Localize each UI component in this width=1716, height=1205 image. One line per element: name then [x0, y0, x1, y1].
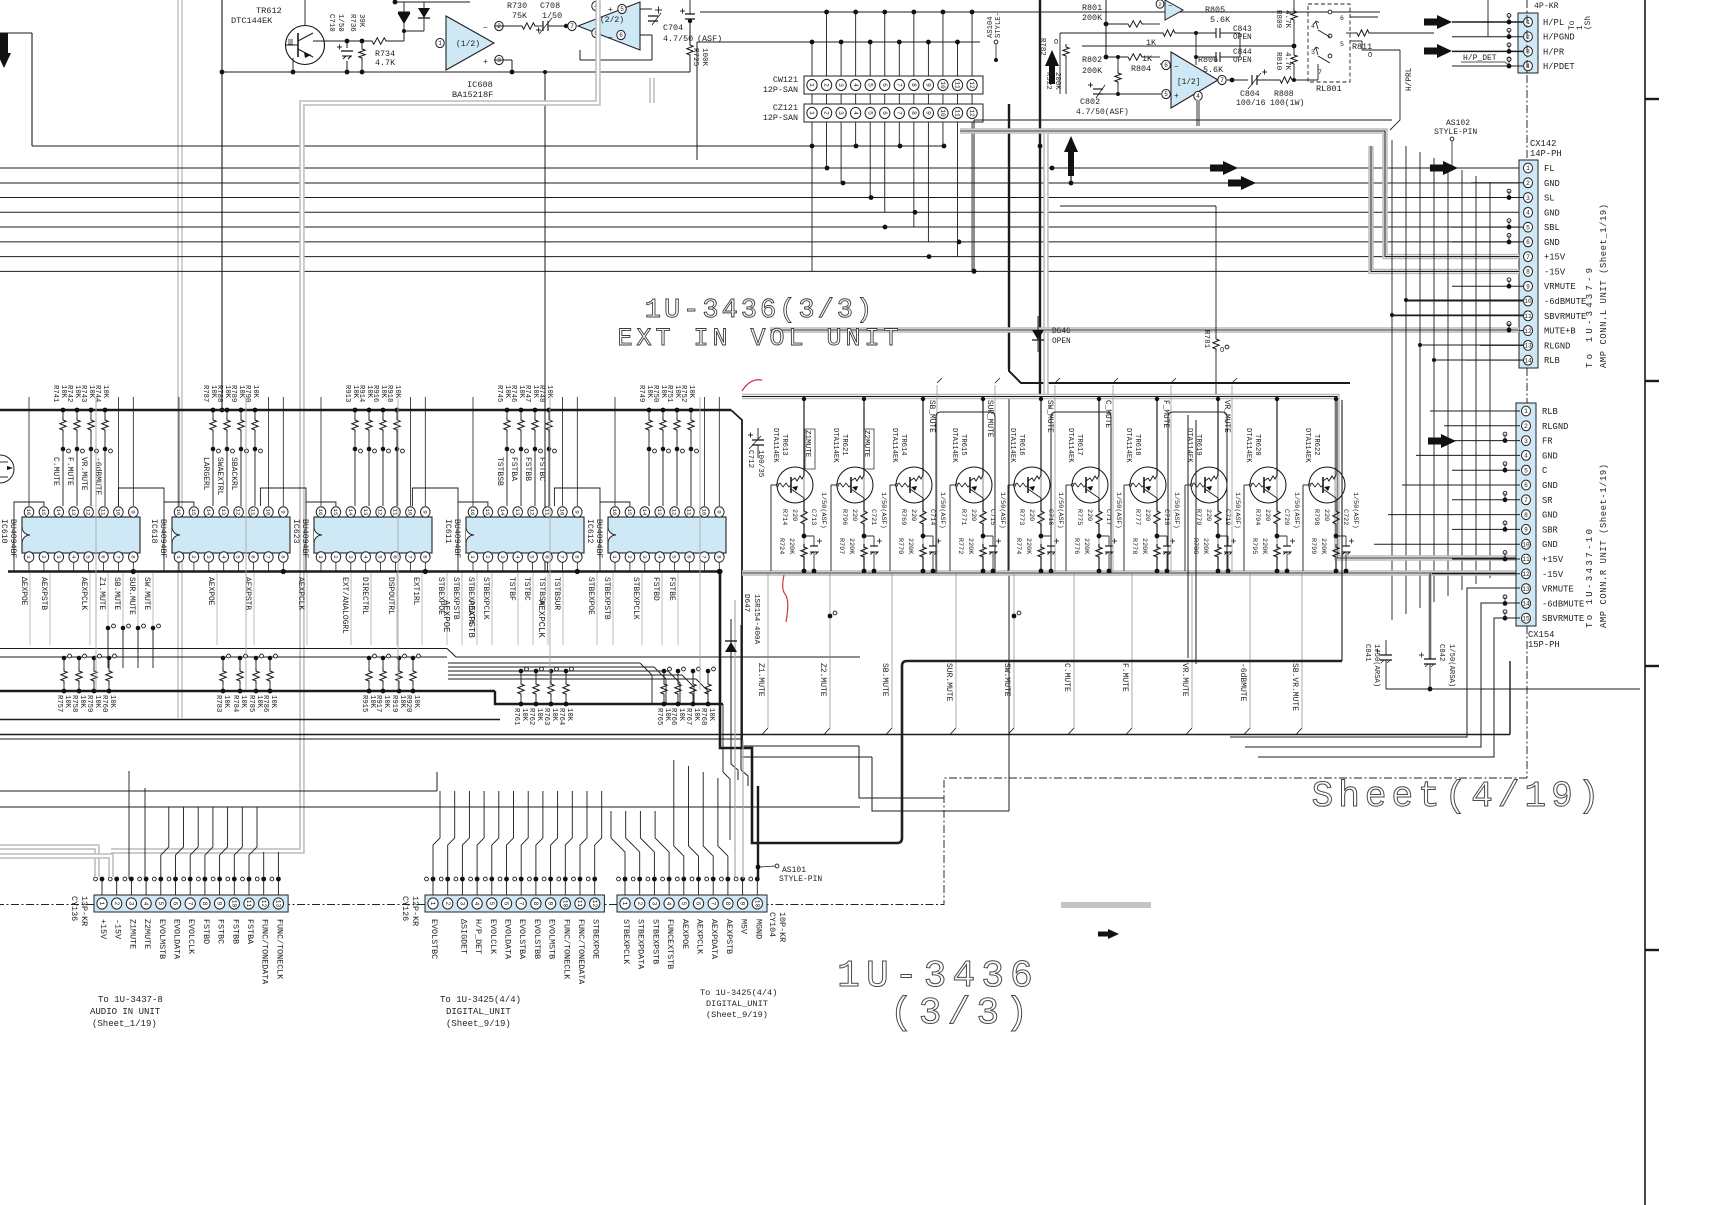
svg-text:R752: R752	[679, 385, 687, 402]
svg-text:F.MUTE: F.MUTE	[65, 457, 74, 486]
label R776 220K	[1072, 538, 1090, 555]
pin 5 CW121	[865, 79, 875, 90]
pin 11 CW121	[952, 79, 962, 90]
svg-text:R779: R779	[1194, 509, 1202, 525]
svg-text:4: 4	[656, 555, 663, 559]
pin 2 CY104	[635, 898, 645, 909]
pin 1 CY104	[620, 898, 630, 909]
svg-text:220K: 220K	[966, 538, 974, 555]
node FUNC/TONECLK	[561, 919, 571, 980]
svg-text:-15V: -15V	[1544, 267, 1566, 277]
svg-text:SBL: SBL	[1544, 223, 1560, 233]
node AEXPSTB	[243, 573, 254, 645]
node SW_MUTE	[1045, 378, 1060, 573]
svg-text:5: 5	[620, 6, 624, 13]
wire corridor	[1509, 661, 1511, 735]
svg-text:1/50(ASF): 1/50(ASF)	[819, 492, 827, 529]
op-amp IC608 (2/2)	[568, 1, 640, 50]
resistor R744	[102, 408, 113, 506]
node AEXPCLK	[79, 573, 90, 645]
svg-text:SR: SR	[1542, 496, 1553, 506]
wire	[345, 39, 350, 75]
svg-text:(2/2): (2/2)	[600, 16, 624, 25]
label R787 10K	[201, 385, 217, 402]
svg-text:14: 14	[1524, 357, 1532, 364]
node DIRECTRL	[360, 573, 371, 645]
svg-text:2: 2	[497, 23, 501, 30]
label C712 100/35	[746, 450, 764, 478]
svg-text:11: 11	[1522, 556, 1530, 563]
wire	[1155, 397, 1159, 508]
resistor R747	[532, 408, 543, 506]
svg-text:EVOLSTBB: EVOLSTBB	[532, 919, 542, 959]
label R798 220	[1312, 509, 1330, 525]
svg-text:5.6K: 5.6K	[1210, 15, 1231, 25]
node -6dBMUTE	[1238, 573, 1250, 735]
svg-text:R750: R750	[651, 385, 659, 402]
svg-text:5: 5	[529, 555, 536, 559]
svg-text:R798: R798	[1312, 509, 1320, 525]
node ΔSIGDET	[458, 919, 468, 954]
svg-text:R799: R799	[1309, 538, 1317, 554]
svg-text:6: 6	[695, 902, 702, 906]
wire pin15 loop	[600, 502, 630, 572]
svg-text:GND: GND	[1542, 481, 1558, 491]
node TSTBC	[522, 573, 533, 645]
svg-text:16: 16	[611, 509, 618, 516]
wire	[0, 734, 1510, 736]
pin 12 CX142 MUTE+B	[1523, 326, 1575, 337]
svg-text:RL801: RL801	[1316, 84, 1342, 94]
wire	[1216, 397, 1220, 508]
label R750 10K	[651, 385, 667, 402]
svg-text:9: 9	[573, 510, 580, 514]
label R801 200K	[1082, 3, 1103, 23]
svg-text:D646: D646	[1052, 328, 1071, 336]
label R730 75K	[507, 1, 528, 21]
svg-text:-6dBMUTE: -6dBMUTE	[93, 457, 102, 496]
resistor R922	[1044, 44, 1069, 94]
wire	[220, 0, 225, 412]
svg-text:8: 8	[532, 902, 539, 906]
svg-text:DIRECTRL: DIRECTRL	[360, 577, 369, 615]
svg-text:2: 2	[444, 902, 451, 906]
capacitor C802	[1088, 83, 1161, 99]
svg-text:R778: R778	[1130, 538, 1138, 554]
wire pin15 loop	[458, 502, 488, 572]
connector CY104	[617, 895, 767, 912]
svg-text:2: 2	[332, 555, 339, 559]
svg-text:C716: C716	[1046, 509, 1054, 525]
svg-text:DTC144EK: DTC144EK	[231, 16, 273, 26]
svg-text:H/PDET: H/PDET	[1543, 62, 1575, 72]
svg-text:10K: 10K	[412, 695, 420, 709]
svg-text:10: 10	[115, 509, 122, 516]
svg-text:STBEXPOE: STBEXPOE	[586, 577, 595, 615]
wire	[862, 397, 866, 508]
pin 7 CY136	[185, 898, 195, 909]
svg-text:R784: R784	[231, 695, 239, 712]
pin 10 CZ121	[938, 107, 948, 118]
pin 3 CX154 FR	[1521, 436, 1553, 447]
label C715	[988, 509, 996, 525]
label CX154 15P-PH	[1528, 630, 1560, 650]
label R757 10K	[55, 695, 71, 712]
svg-text:4: 4	[1526, 210, 1530, 217]
pin 13 CX154 VRMUTE	[1521, 584, 1573, 595]
node EVOLMSTB	[157, 919, 167, 959]
resistor R916	[380, 408, 391, 506]
svg-text:9: 9	[739, 902, 746, 906]
svg-text:6: 6	[503, 902, 510, 906]
svg-text:9: 9	[925, 83, 932, 87]
svg-text:R767: R767	[684, 708, 692, 725]
pin 4 CW121	[850, 79, 860, 90]
wire stubs	[94, 877, 760, 895]
svg-text:6: 6	[619, 32, 623, 39]
node Z2MUTE	[142, 919, 152, 949]
label IC623	[291, 519, 309, 558]
resistor R914	[366, 408, 377, 506]
svg-text:R770: R770	[896, 538, 904, 554]
svg-text:R796: R796	[840, 509, 848, 525]
svg-text:DTA114EK: DTA114EK	[771, 428, 779, 463]
svg-text:8: 8	[201, 902, 208, 906]
capacitor C717	[1099, 536, 1117, 573]
svg-text:1/50(ASF): 1/50(ASF)	[1292, 492, 1300, 529]
svg-text:TR618: TR618	[1133, 434, 1141, 456]
svg-text:OPEN: OPEN	[1233, 34, 1252, 42]
label R741 10K	[51, 385, 67, 402]
wire gray cell	[922, 399, 924, 571]
label R790 10K	[243, 385, 259, 402]
svg-text:+: +	[1174, 92, 1179, 101]
wire	[802, 397, 806, 508]
IC IC618 BU4094BF body	[172, 517, 290, 553]
bus gray transistor top	[742, 397, 1519, 559]
svg-text:5: 5	[377, 555, 384, 559]
label DTA114EK TR615	[950, 428, 967, 463]
svg-text:R736: R736	[348, 14, 356, 32]
wire base	[1243, 485, 1245, 571]
node +15V	[98, 919, 108, 939]
svg-text:16: 16	[317, 509, 324, 516]
svg-text:R761: R761	[512, 708, 520, 725]
svg-text:CX142: CX142	[1530, 139, 1556, 149]
pin 12 CW121	[967, 79, 977, 90]
svg-text:3: 3	[1311, 49, 1315, 56]
wire base	[830, 485, 832, 571]
wire heavy MGND	[756, 786, 761, 879]
svg-text:8: 8	[1524, 512, 1528, 519]
svg-text:4: 4	[1524, 453, 1528, 460]
wire pin15 loop	[164, 502, 194, 572]
label R777 220	[1133, 509, 1151, 525]
pins bottom IC612	[610, 552, 724, 562]
pin 9 CX154 SBR	[1521, 525, 1558, 536]
wire	[32, 144, 946, 149]
svg-text:STBEXPSTB: STBEXPSTB	[602, 577, 611, 620]
node FSTBB	[230, 919, 240, 944]
wire	[1038, 0, 1043, 396]
svg-text:+15V: +15V	[98, 919, 108, 939]
svg-text:8: 8	[279, 555, 286, 559]
label IC611	[443, 519, 461, 558]
dash-dot vertical	[1526, 0, 1528, 778]
svg-text:4: 4	[70, 555, 77, 559]
label DTA114EK TR616	[1008, 428, 1025, 463]
label R810 4.7K	[1274, 52, 1291, 71]
label R746 10K	[509, 385, 525, 402]
pin 3 4P-KR H/PR	[1524, 47, 1565, 58]
wire	[1374, 411, 1520, 574]
svg-text:1/50(ASF): 1/50(ASF)	[1172, 492, 1180, 529]
label R763 10K	[542, 708, 558, 725]
wire base	[1065, 485, 1067, 571]
svg-text:1K: 1K	[1142, 54, 1153, 64]
label C704 4.7/50(ASF)	[663, 23, 722, 44]
svg-text:VR_MUTE: VR_MUTE	[1222, 400, 1230, 433]
node SB.VR.MUTE	[1290, 573, 1302, 735]
label Sheet(4/19)	[1312, 776, 1605, 817]
svg-text:6: 6	[100, 555, 107, 559]
svg-text:10K: 10K	[707, 708, 715, 722]
svg-text:R764: R764	[557, 708, 565, 725]
svg-text:10K: 10K	[269, 695, 277, 709]
svg-text:16: 16	[25, 509, 32, 516]
resistor R788	[224, 408, 235, 506]
resistor R757	[61, 654, 72, 693]
svg-text:1/50(ASF): 1/50(ASF)	[1351, 492, 1359, 529]
label R747 10K	[523, 385, 539, 402]
svg-text:5: 5	[680, 902, 687, 906]
pins top IC611	[468, 507, 582, 517]
capacitor C719	[1218, 536, 1236, 573]
svg-text:SB_MUTE: SB_MUTE	[927, 400, 935, 433]
svg-text:220: 220	[850, 509, 858, 521]
svg-text:To 1U-3437-10: To 1U-3437-10	[1585, 527, 1595, 628]
pins top IC618	[174, 507, 288, 517]
svg-text:CZ121: CZ121	[773, 103, 798, 113]
wire	[0, 806, 860, 808]
svg-text:5: 5	[157, 902, 164, 906]
svg-text:11: 11	[1524, 313, 1532, 320]
pin 7 CY104	[708, 898, 718, 909]
label R802 200K	[1082, 55, 1103, 76]
label R744 10K	[93, 385, 109, 402]
svg-text:13: 13	[656, 509, 663, 516]
label R796 220	[840, 509, 858, 525]
pin 2 CZ121	[821, 107, 831, 118]
node STBEXPCLK	[481, 573, 492, 645]
diode D646	[1032, 316, 1071, 352]
svg-text:4.7/50(ASF): 4.7/50(ASF)	[1076, 108, 1129, 117]
label CY136 13P-KR	[69, 896, 89, 926]
svg-text:EXT IN VOL UNIT: EXT IN VOL UNIT	[617, 324, 902, 353]
transistor TR619 DTA114EK	[1185, 467, 1227, 503]
resistor R773 220	[1038, 508, 1044, 538]
svg-text:R922: R922	[1044, 72, 1052, 90]
svg-text:7: 7	[265, 555, 272, 559]
bus gray	[734, 600, 736, 877]
svg-text:14: 14	[205, 509, 212, 516]
svg-text:100/35: 100/35	[756, 450, 764, 478]
svg-text:12: 12	[591, 900, 598, 908]
wire	[0, 210, 1519, 215]
svg-text:R797: R797	[837, 538, 845, 554]
capacitor C844	[1196, 46, 1252, 65]
node EVOLCLK	[186, 919, 196, 955]
sheet border right edge	[1645, 0, 1659, 1205]
svg-text:AUDIO IN UNIT: AUDIO IN UNIT	[90, 1007, 161, 1017]
resistor R780 220K	[1215, 544, 1221, 573]
svg-text:7: 7	[701, 555, 708, 559]
svg-text:R788: R788	[215, 385, 223, 402]
pin 4 4P-KR H/PDET	[1524, 61, 1575, 72]
svg-text:STYLE-PIN: STYLE-PIN	[779, 875, 822, 884]
svg-text:220K: 220K	[787, 538, 795, 555]
wire	[564, 24, 568, 28]
bus resistor top	[0, 410, 742, 748]
resistor R811	[1352, 30, 1372, 60]
wire	[291, 41, 370, 74]
label R794 220	[1253, 509, 1271, 525]
wire pin15 loop	[14, 502, 44, 572]
resistor R745	[504, 408, 515, 506]
node DSPOUTRL	[386, 573, 397, 645]
wire corridor2	[1230, 588, 1520, 757]
svg-text:AEXPOE: AEXPOE	[680, 919, 690, 949]
wire pin10 link	[412, 488, 458, 506]
connector CX142	[1519, 160, 1538, 368]
wire	[0, 772, 437, 791]
svg-text:C713: C713	[809, 509, 817, 525]
resistor R752	[688, 408, 699, 506]
svg-text:EVOLMSTB: EVOLMSTB	[157, 919, 167, 959]
svg-text:TR615: TR615	[959, 434, 967, 456]
wire staircase	[448, 663, 708, 704]
wire fence	[1168, 412, 1227, 573]
resistor R786	[267, 654, 278, 693]
pin 10 CW121	[938, 79, 948, 90]
label R782	[1038, 38, 1058, 56]
svg-text:+15V: +15V	[1544, 253, 1566, 263]
wire	[1097, 397, 1101, 508]
svg-text:SL: SL	[1544, 194, 1555, 204]
svg-text:C: C	[1542, 466, 1547, 476]
svg-text:AEXPCLK: AEXPCLK	[536, 600, 546, 638]
label R769 220	[899, 509, 917, 525]
svg-text:H/PL: H/PL	[1543, 18, 1564, 28]
svg-text:R801: R801	[1082, 3, 1102, 13]
wire gray cell	[863, 399, 865, 571]
svg-text:9: 9	[715, 510, 722, 514]
node M5V	[739, 919, 749, 934]
svg-text:BU4094BF: BU4094BF	[594, 519, 603, 558]
svg-text:DTA114EK: DTA114EK	[831, 428, 839, 463]
label R920 10K	[404, 695, 420, 712]
resistor R781	[1060, 206, 1229, 398]
resistor R743	[88, 408, 99, 506]
svg-text:SBVRMUTE: SBVRMUTE	[1544, 312, 1586, 322]
svg-text:200K: 200K	[1082, 66, 1103, 76]
node STBEXPCLK	[631, 573, 642, 645]
node FSTBA	[245, 919, 255, 945]
pin 6 CX142 GND	[1523, 237, 1559, 248]
svg-text:+: +	[608, 6, 613, 15]
svg-text:2: 2	[823, 83, 830, 87]
pin 11 CY136	[244, 898, 254, 909]
svg-text:To 1U-3425(4/4): To 1U-3425(4/4)	[700, 988, 777, 998]
svg-text:10K: 10K	[393, 385, 401, 399]
svg-text:DTA114EK: DTA114EK	[1185, 428, 1193, 463]
svg-text:8: 8	[1526, 269, 1530, 276]
svg-text:TSTBSUR: TSTBSUR	[552, 577, 561, 610]
pin 7 CZ121	[894, 107, 904, 118]
resistor R785	[253, 654, 264, 693]
label R915 10K	[360, 695, 376, 712]
svg-text:10: 10	[1524, 298, 1532, 305]
svg-text:1/50: 1/50	[542, 11, 562, 21]
svg-text:1SR154-400A: 1SR154-400A	[752, 594, 760, 645]
svg-text:5: 5	[866, 83, 873, 87]
label R780 220K	[1191, 538, 1209, 555]
wire	[1039, 397, 1043, 508]
label R736 39K	[348, 14, 365, 32]
wire	[473, 562, 580, 574]
svg-text:8: 8	[910, 111, 917, 115]
svg-text:R725: R725	[691, 48, 699, 67]
svg-text:AS104: AS104	[987, 16, 995, 38]
label C842 1/50(ARSA)	[1437, 644, 1455, 687]
svg-text:4.7/50: 4.7/50	[663, 34, 693, 44]
svg-text:7: 7	[895, 111, 902, 115]
node SW.MUTE	[142, 573, 153, 645]
svg-text:220K: 220K	[1140, 538, 1148, 555]
svg-text:H/PRL: H/PRL	[1406, 67, 1414, 91]
svg-text:+: +	[483, 58, 488, 67]
node AEXPSTB	[39, 573, 50, 645]
resistor R790	[252, 408, 263, 506]
pin 7 CW121	[894, 79, 904, 90]
svg-text:1: 1	[438, 40, 442, 47]
svg-text:1: 1	[1524, 408, 1528, 415]
svg-text:RLGND: RLGND	[1544, 341, 1570, 351]
svg-text:AS102: AS102	[1446, 119, 1470, 128]
pin 1 CZ121	[807, 107, 817, 118]
svg-text:13: 13	[70, 509, 77, 516]
svg-text:RLGND: RLGND	[1542, 422, 1568, 432]
svg-text:15: 15	[40, 509, 47, 516]
pins bottom IC611	[468, 552, 582, 562]
label R759 10K	[85, 695, 101, 712]
wire	[812, 94, 972, 271]
node -6dBMUTE	[93, 457, 102, 496]
label R760 10K	[100, 695, 116, 712]
svg-text:15: 15	[190, 509, 197, 516]
svg-text:5: 5	[85, 555, 92, 559]
svg-text:FSTBD: FSTBD	[201, 919, 211, 944]
svg-text:1/50(ASF): 1/50(ASF)	[1233, 492, 1241, 529]
arrow up	[1064, 136, 1078, 185]
connector CY126	[425, 895, 604, 912]
label C721	[869, 509, 877, 525]
label C708 1/50	[540, 1, 562, 21]
label 1/50(ASF)	[1172, 492, 1180, 529]
svg-text:R916: R916	[371, 385, 379, 402]
svg-text:11: 11	[576, 900, 583, 908]
arrow right FLa	[1210, 161, 1238, 175]
